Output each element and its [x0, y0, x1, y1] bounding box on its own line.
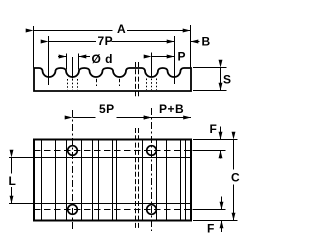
extension line for C bottom	[193, 220, 238, 222]
extension lines for groove diameter d	[66, 54, 68, 70]
plan view outline	[34, 140, 191, 221]
dimension L	[11, 158, 13, 174]
extension line for F top (hole row)	[193, 150, 226, 152]
hidden hole lines under groove t5	[146, 79, 148, 91]
trough centerline t5	[151, 53, 153, 78]
dimension P+B	[152, 117, 192, 119]
groove edge lines in plan view	[42, 141, 186, 220]
dimension C	[233, 140, 235, 170]
svg-text:C: C	[231, 171, 240, 185]
mounting hole bottom-right	[147, 205, 157, 215]
svg-text:5P: 5P	[99, 102, 115, 116]
svg-text:L: L	[9, 174, 17, 188]
trough centerline t6, 7P right extension	[174, 36, 176, 84]
hidden hole lines under groove t2	[67, 79, 69, 90]
svg-text:Ø d: Ø d	[92, 52, 114, 66]
extension lines for S	[193, 67, 227, 69]
svg-text:F: F	[207, 222, 215, 236]
bar outline (side view with tube grooves)	[34, 68, 191, 91]
dimension arrows for d	[58, 56, 67, 58]
svg-text:B: B	[202, 35, 211, 49]
hole column centerline right	[151, 108, 153, 231]
mounting hole top-right	[147, 146, 157, 156]
L feature line bottom	[9, 203, 191, 205]
trough t3 centerline mark	[96, 79, 98, 86]
extension line for C top	[193, 139, 238, 141]
trough centerline t1, 7P left extension	[48, 36, 50, 85]
trough centerline t2	[72, 57, 74, 79]
dimension P	[152, 56, 175, 58]
break lines in plan view	[135, 128, 137, 228]
dimension B leader tick	[191, 41, 200, 43]
dimension F bottom	[221, 197, 223, 210]
break lines in side view	[135, 62, 137, 98]
dimension S	[220, 68, 222, 91]
trough t4 centerline mark	[119, 79, 121, 86]
dimension A	[34, 30, 113, 32]
dimension F top	[220, 127, 222, 140]
mounting hole top-left	[68, 146, 78, 156]
svg-text:S: S	[223, 73, 232, 87]
svg-text:7P: 7P	[98, 34, 114, 48]
svg-text:F: F	[210, 122, 218, 136]
dimension 7P	[49, 41, 97, 43]
extension line right for A and B	[190, 25, 192, 68]
svg-text:P: P	[178, 50, 187, 64]
hole column centerline left	[72, 110, 74, 231]
hole row hidden line top	[34, 150, 191, 152]
extension line left for A	[33, 26, 35, 68]
svg-text:A: A	[117, 22, 126, 36]
extension line for F bottom (hole row)	[193, 209, 226, 211]
dimension 5P	[73, 117, 96, 119]
hole row hidden line bottom	[34, 209, 191, 211]
svg-text:P+B: P+B	[159, 102, 184, 116]
mounting hole bottom-left	[68, 205, 78, 215]
L feature line top	[9, 157, 191, 159]
